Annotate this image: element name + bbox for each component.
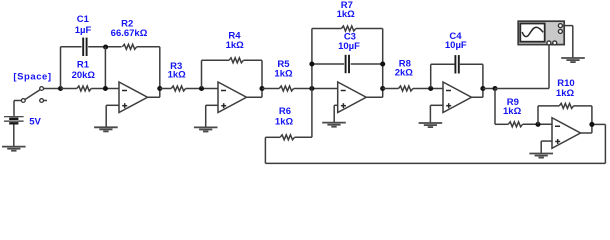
wire U4 plus down to ground (429, 105, 431, 123)
wire battery to ground (13, 124, 15, 146)
svg-text:66.67kΩ: 66.67kΩ (111, 28, 148, 39)
wire U1 plus down to ground (105, 105, 107, 127)
svg-text:1kΩ: 1kΩ (556, 88, 575, 99)
svg-text:R6: R6 (279, 106, 291, 117)
wire U5 output up (591, 124, 593, 133)
wire to oscilloscope drop (495, 88, 549, 90)
svg-text:1kΩ: 1kΩ (275, 117, 294, 128)
op-amp U2 (218, 82, 247, 113)
wire U5 plus down to ground (540, 141, 542, 153)
wire U3 output (366, 96, 383, 98)
svg-text:1kΩ: 1kΩ (226, 40, 245, 51)
wire U4 out to scope node (483, 88, 495, 90)
wire U2 out to R5 (262, 88, 279, 90)
oscilloscope terminal A- (553, 41, 557, 45)
wire U3 plus input (334, 104, 338, 106)
svg-text:1µF: 1µF (75, 25, 92, 36)
oscilloscope terminal T2 (558, 29, 562, 33)
junction U4 output node (480, 86, 485, 91)
resistor R10 (559, 103, 573, 108)
svg-text:1kΩ: 1kΩ (274, 69, 293, 80)
svg-text:5V: 5V (29, 116, 41, 127)
svg-text:[Space]: [Space] (13, 72, 51, 83)
wire R5 to U3 minus input (294, 88, 338, 90)
junction C3 right (380, 61, 385, 66)
wire U4 output up (482, 89, 484, 98)
wire scope ground right (562, 25, 572, 27)
wire up to oscilloscope (548, 45, 550, 89)
wire U5 plus input (541, 140, 552, 142)
wire R1 to U1 minus input (91, 88, 119, 90)
junction minus node U3 (309, 86, 314, 91)
battery V1 5V (4, 117, 24, 124)
wire minus node up to C4 (430, 64, 432, 87)
wire minus node up to R10 (537, 106, 539, 124)
wire to R6 right (295, 136, 312, 138)
wire R3 to U2 minus input (186, 88, 218, 90)
wire corner to switch pole (14, 100, 21, 102)
capacitor C3 (345, 55, 347, 73)
wire to R4 (202, 59, 230, 61)
wire U3 out to R8 (383, 88, 399, 90)
wire feedback bottom run (265, 162, 605, 164)
wire minus node down to R6 (311, 89, 313, 138)
switch J1 pole terminal (21, 99, 25, 103)
resistor R6 (280, 135, 294, 140)
wire U4 output (472, 96, 483, 98)
wire switch to node A (44, 88, 61, 90)
wire R6 left (265, 136, 280, 138)
wire feedback down to U2 output (261, 60, 263, 88)
svg-text:1kΩ: 1kΩ (503, 106, 522, 117)
ground battery (2, 147, 26, 151)
resistor R2 (122, 44, 136, 49)
ground U2 (194, 127, 218, 131)
wire to C1 left plate (61, 46, 82, 48)
wire minus node up to R4 (201, 60, 203, 87)
switch lever (25, 90, 40, 100)
wire U1 output up (159, 89, 161, 98)
wire R9 to U5 minus input (523, 123, 552, 125)
node A junction (58, 86, 63, 91)
junction minus node U1 (103, 86, 108, 91)
wire feedback down to U3 output (382, 29, 384, 89)
wire to C4 (431, 63, 455, 65)
wire feedback right vertical (604, 124, 606, 163)
wire minus node up to R7 (311, 29, 313, 88)
oscilloscope XSC1 (518, 21, 564, 44)
wire node B down to minus node (104, 47, 106, 89)
svg-text:C1: C1 (77, 14, 90, 25)
junction U2 output node (259, 86, 264, 91)
op-amp U3 (338, 82, 367, 113)
ground U4 (419, 123, 443, 127)
wire stub unused throw (44, 100, 47, 102)
switch J1 throw terminal bottom (40, 99, 44, 103)
svg-text:1kΩ: 1kΩ (168, 70, 187, 81)
resistor R8 (399, 86, 413, 91)
op-amp U4 (443, 82, 472, 113)
op-amp U1 (119, 82, 148, 113)
ground U3 (322, 123, 346, 127)
wire feedback down to U4 output (482, 64, 484, 88)
wire node A up to C1 (60, 47, 62, 88)
junction minus node U2 (199, 86, 204, 91)
wire scope node down to R9 (494, 89, 496, 125)
wire R8 to U4 minus input (413, 88, 443, 90)
wire to C3 (312, 63, 344, 65)
ground U5 (529, 154, 553, 158)
svg-text:20kΩ: 20kΩ (72, 70, 96, 81)
wire U1 output (148, 96, 160, 98)
oscilloscope terminal A+ (547, 41, 551, 45)
resistor R9 (508, 122, 522, 127)
junction minus node U5 (535, 122, 540, 127)
wire U2 output (247, 96, 263, 98)
wire scope ground down (572, 26, 574, 58)
wire U5 output (581, 132, 592, 134)
wire R10 to corner (574, 105, 592, 107)
op-amp U5 (552, 118, 581, 149)
wire C3 to right (351, 63, 383, 65)
wire feedback top right (592, 123, 606, 125)
wire to R10 (538, 105, 559, 107)
junction U5 output node (589, 122, 594, 127)
wire R4 to corner (243, 59, 262, 61)
wire battery top stub (13, 101, 15, 116)
junction C3 left (309, 61, 314, 66)
wire node A to R1 (61, 88, 77, 90)
resistor R4 (229, 58, 243, 63)
resistor R3 (171, 86, 185, 91)
junction scope node (492, 86, 497, 91)
junction minus node U4 (428, 86, 433, 91)
wire U3 plus down to ground (333, 105, 335, 122)
capacitor C4 (454, 55, 456, 73)
svg-text:10µF: 10µF (338, 41, 360, 52)
wire C4 to right corner (460, 63, 483, 65)
wire U4 plus input (430, 104, 443, 106)
wire R7 to right corner (356, 28, 383, 30)
wire U1 plus input (106, 104, 119, 106)
ground U1 (94, 127, 118, 131)
wire to R7 (312, 28, 342, 30)
wire feedback down to U1 output (159, 47, 161, 89)
wire to R9 (495, 123, 508, 125)
wire U2 plus input (206, 104, 218, 106)
capacitor C1 (82, 38, 84, 56)
wire U3 output up (382, 89, 384, 98)
wire C1 to R2 (88, 46, 121, 48)
wire U2 plus down to ground (205, 105, 207, 127)
svg-text:R1: R1 (77, 60, 90, 71)
svg-text:1kΩ: 1kΩ (337, 9, 356, 20)
junction U1 output node (157, 86, 162, 91)
oscilloscope terminal T1 (558, 24, 562, 28)
switch J1 throw terminal top (40, 87, 44, 91)
wire feedback left vertical (264, 137, 266, 163)
junction C1-R2 node B (103, 44, 108, 49)
wire U1 out to R3 (160, 88, 171, 90)
svg-text:10µF: 10µF (445, 40, 467, 51)
svg-text:2kΩ: 2kΩ (395, 68, 414, 79)
junction U3 output node (380, 86, 385, 91)
ground oscilloscope (561, 58, 585, 62)
wire R2 to output corner (137, 46, 160, 48)
wire U2 output up (261, 89, 263, 98)
resistor R5 (279, 86, 293, 91)
resistor R1 (77, 86, 91, 91)
resistor R7 (341, 26, 355, 31)
wire feedback down to U5 output (591, 106, 593, 125)
